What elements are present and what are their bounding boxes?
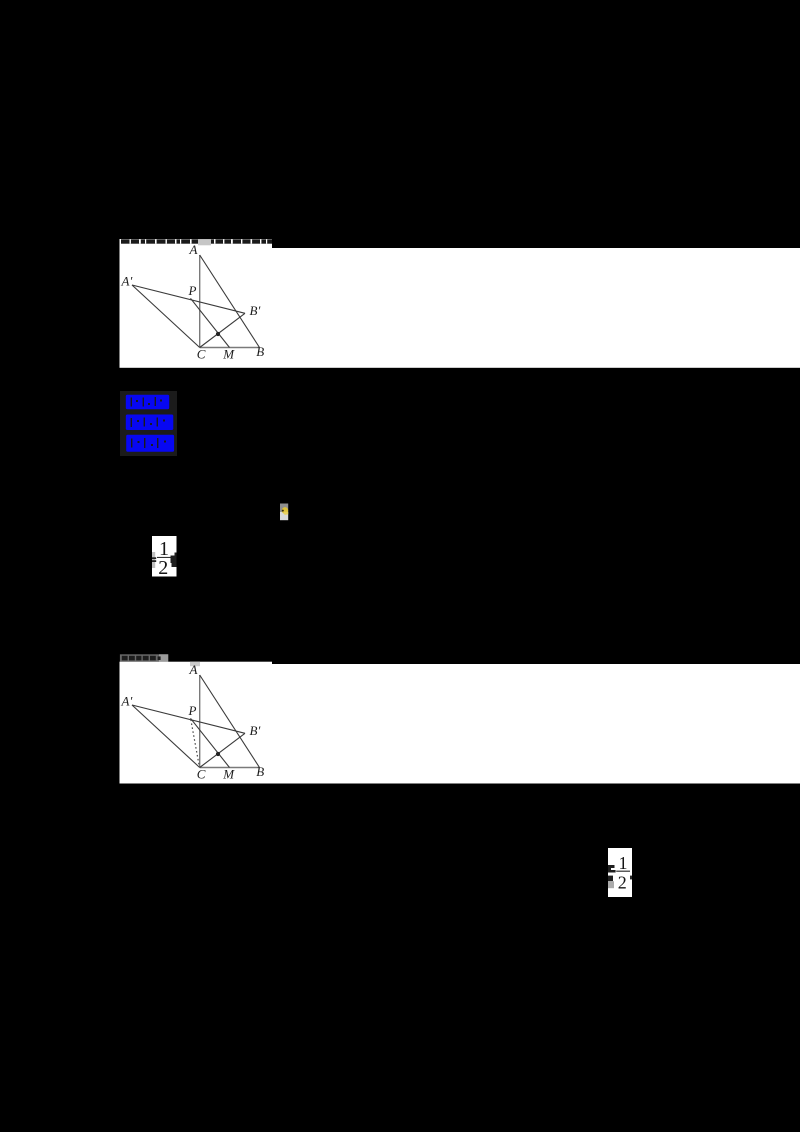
svg-text:1: 1 [619,853,628,873]
segment A'B' [132,705,245,733]
clipped text strip [121,239,272,243]
segment A'C [132,285,200,348]
segment AB [200,255,260,348]
segment PM [191,718,230,767]
segment CB' [200,733,245,767]
side CB [200,347,260,349]
white background left (diagram image) [120,662,273,784]
svg-text:B′: B′ [250,723,261,738]
junction dot [216,332,220,336]
svg-text:A′: A′ [121,694,133,709]
svg-text:C: C [197,766,206,781]
svg-text:B′: B′ [250,303,261,318]
svg-text:A: A [189,662,198,677]
svg-text:A: A [189,242,198,257]
line 1 [126,395,169,410]
dotted PC [191,720,200,768]
svg-text:P: P [188,283,197,298]
svg-text:2: 2 [618,873,627,893]
side AC [199,675,201,768]
junction dot [216,752,220,756]
svg-text:B: B [256,344,264,359]
segment CB' [200,313,245,347]
svg-text:M: M [222,346,235,361]
svg-text:C: C [197,346,206,361]
white background left (diagram image) [120,239,273,368]
dark holes to texture glyphs [131,397,166,448]
segment PM [191,298,230,347]
svg-text:M: M [222,766,235,781]
labels [121,242,265,361]
gray patch above label A [198,239,211,245]
segment A'C [132,705,200,768]
line 2 [126,415,174,431]
white background right (blank band) [272,664,800,784]
segment A'B' [132,285,245,313]
line 3 [126,435,174,452]
side CB [200,767,260,769]
svg-text:B: B [256,764,264,779]
white background right (blank band) [272,248,800,368]
svg-text:2: 2 [158,557,168,577]
labels [121,662,265,781]
caption strip [120,654,168,661]
svg-text:P: P [188,703,197,718]
clipped glyph at right edge [171,553,177,568]
svg-text:A′: A′ [121,274,133,289]
gray patch above label A [190,662,200,667]
segment AB [200,675,260,768]
side AC [199,255,201,348]
